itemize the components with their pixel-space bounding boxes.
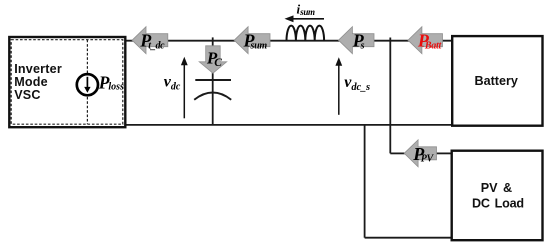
current arrow i_sum xyxy=(285,15,325,22)
svg-text:vdc_s: vdc_s xyxy=(344,74,370,93)
wire junction to PV branch vertical xyxy=(389,38,391,154)
power arrow P_t_dc xyxy=(132,27,168,54)
svg-text:isum: isum xyxy=(297,2,316,17)
power arrow P_Batt xyxy=(408,27,443,54)
wire capacitor bottom lead xyxy=(212,80,214,125)
svg-text:Inverter: Inverter xyxy=(14,62,62,76)
annotation arrow v_dc_s xyxy=(335,57,342,115)
capacitor C curved plate xyxy=(194,93,231,100)
power arrow P_C xyxy=(199,46,227,73)
svg-text:PV &: PV & xyxy=(481,181,512,195)
VSC dashed boundary xyxy=(11,40,123,125)
power arrow P_s xyxy=(339,27,375,54)
wire PV feeder horizontal xyxy=(390,152,405,154)
wire PV return bottom horizontal xyxy=(365,237,452,239)
svg-text:VSC: VSC xyxy=(14,88,41,102)
wire PV arrow tail to PV box xyxy=(436,152,452,154)
capacitor C top plate xyxy=(195,79,231,81)
PV and DC load box xyxy=(452,151,543,241)
inductor L xyxy=(287,26,325,41)
current source P_loss xyxy=(77,74,98,95)
svg-text:Battery: Battery xyxy=(475,74,518,88)
battery box xyxy=(452,36,542,126)
power arrow P_sum xyxy=(234,27,270,54)
power arrow P_PV xyxy=(404,140,436,167)
wire bottom dc bus xyxy=(122,124,453,126)
annotation arrow v_dc xyxy=(181,57,188,119)
inverter VSC box xyxy=(9,37,125,127)
svg-text:Mode: Mode xyxy=(14,75,48,89)
svg-text:DC Load: DC Load xyxy=(472,197,524,211)
svg-text:Ps: Ps xyxy=(352,31,365,52)
svg-text:vdc: vdc xyxy=(164,74,181,93)
VSC dashed divider xyxy=(86,40,88,125)
wire PV return vertical xyxy=(364,124,366,238)
wire top dc bus xyxy=(124,40,453,42)
wire capacitor branch top xyxy=(212,37,214,80)
